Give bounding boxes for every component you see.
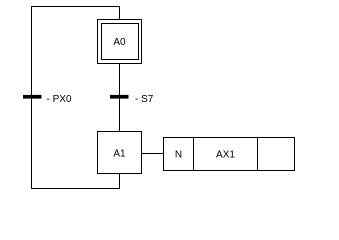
step A0 inner box [102, 24, 139, 60]
step A0 (initial step, double border outer box) [98, 20, 142, 64]
wire: step A0 to step A1 [119, 64, 121, 132]
wire: into top of step A0 [119, 7, 121, 20]
transition PX0 bar [23, 95, 42, 99]
action block divider qualifier/name [193, 138, 195, 171]
svg-text:A1: A1 [113, 149, 126, 160]
wire: step A1 to action block [142, 153, 164, 155]
wire: feedback loop bottom horizontal [32, 188, 120, 190]
svg-text:- S7: - S7 [135, 94, 154, 105]
svg-text:A0: A0 [113, 37, 126, 48]
action block divider name/indicator [257, 138, 259, 171]
step A1 box [98, 132, 142, 174]
action block outline [164, 138, 295, 171]
wire: step A1 bottom to feedback loop [119, 174, 121, 190]
transition S7 bar [110, 95, 129, 99]
wire: feedback loop left vertical [31, 6, 33, 189]
svg-text:N: N [175, 149, 182, 160]
wire: feedback loop top horizontal [32, 6, 120, 8]
svg-text:AX1: AX1 [216, 149, 235, 160]
svg-text:- PX0: - PX0 [47, 94, 72, 105]
